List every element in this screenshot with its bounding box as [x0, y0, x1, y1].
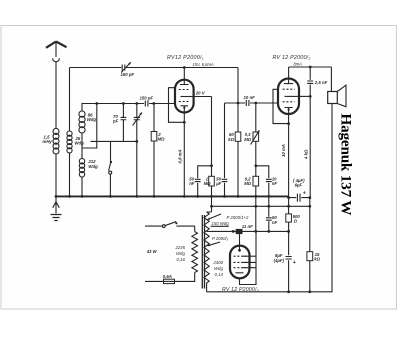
- svg-text:2245: 2245: [175, 245, 186, 250]
- svg-text:150 Wdg: 150 Wdg: [212, 221, 230, 226]
- svg-text:nF: nF: [272, 181, 278, 186]
- svg-text:Wdg: Wdg: [214, 266, 223, 271]
- svg-text:P 2000/₃: P 2000/₃: [212, 236, 229, 241]
- svg-text:nF: nF: [272, 220, 278, 225]
- svg-text:6µF: 6µF: [295, 183, 303, 188]
- svg-text:Ω: Ω: [293, 219, 298, 224]
- svg-text:nF: nF: [189, 181, 195, 186]
- svg-text:150 pF: 150 pF: [140, 96, 154, 101]
- svg-text:2400: 2400: [213, 260, 224, 265]
- svg-text:0,8 mA: 0,8 mA: [178, 149, 183, 163]
- svg-text:pF: pF: [112, 119, 119, 124]
- svg-text:43 W: 43 W: [146, 249, 158, 254]
- svg-text:Wdg: Wdg: [75, 141, 85, 146]
- svg-text:8mA: 8mA: [294, 62, 303, 67]
- svg-text:Wdg: Wdg: [176, 251, 185, 256]
- svg-text:MΩ: MΩ: [244, 137, 252, 142]
- svg-text:RV12 P2000/₁: RV12 P2000/₁: [167, 55, 204, 61]
- svg-text:10 mA: 10 mA: [281, 144, 286, 157]
- svg-text:0,6A: 0,6A: [163, 274, 172, 279]
- svg-text:150 pF: 150 pF: [121, 72, 135, 77]
- svg-text:µF: µF: [215, 181, 221, 186]
- svg-text:15V, 6,6mA: 15V, 6,6mA: [193, 62, 214, 67]
- svg-text:2,5 nF: 2,5 nF: [314, 80, 328, 85]
- svg-text:MΩ: MΩ: [204, 181, 212, 186]
- svg-text:10 nF: 10 nF: [244, 95, 256, 100]
- svg-text:0,16: 0,16: [177, 257, 186, 262]
- svg-text:P 2000/1+2: P 2000/1+2: [227, 215, 250, 220]
- svg-text:kΩ: kΩ: [314, 256, 320, 261]
- svg-text:Wdg: Wdg: [88, 164, 98, 169]
- svg-text:MΩ: MΩ: [244, 181, 252, 186]
- svg-text:0,14: 0,14: [215, 272, 224, 277]
- svg-text:Hagenuk 137 W: Hagenuk 137 W: [338, 114, 355, 216]
- svg-text:mHy: mHy: [43, 139, 53, 144]
- svg-text:Wdg: Wdg: [87, 117, 97, 122]
- svg-text:MΩ: MΩ: [158, 136, 166, 141]
- svg-text:11 nF: 11 nF: [242, 224, 253, 229]
- svg-text:RV 12 P2000/₂: RV 12 P2000/₂: [273, 55, 312, 61]
- svg-text:20 V: 20 V: [195, 91, 206, 96]
- svg-text:(4µF): (4µF): [274, 258, 285, 263]
- svg-text:kΩ: kΩ: [228, 137, 234, 142]
- svg-text:4 kΩ: 4 kΩ: [303, 149, 308, 160]
